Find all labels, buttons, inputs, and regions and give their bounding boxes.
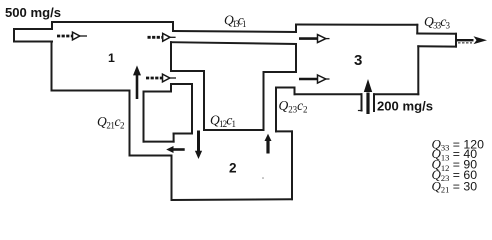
wire inlet pipe top [14, 22, 52, 29]
wire step down to Q13 pipe [172, 22, 174, 31]
speck in box2 [262, 177, 264, 179]
wire box1 top edge [52, 21, 173, 23]
wire box1 left edge [51, 42, 53, 91]
wire Q13 pipe bottom [171, 42, 296, 44]
arrow 200mg/s up into box3 [364, 79, 372, 114]
arrow inflow 500 into box1 [57, 32, 87, 40]
wire box2 top left [174, 133, 192, 135]
wire outlet pipe top [417, 33, 456, 35]
wire Q12 pipe left wall [191, 84, 193, 134]
wire 200mg/s pipe left wall [361, 94, 363, 110]
wire Q13 pipe top [173, 31, 296, 32]
wire outlet pipe bottom [418, 45, 456, 47]
wire box3 left edge [295, 44, 297, 72]
wire box2 left edge [171, 156, 173, 201]
svg-text:1: 1 [108, 51, 115, 65]
wire box1 bottom right [144, 91, 172, 93]
svg-text:200 mg/s: 200 mg/s [377, 98, 433, 113]
arrow Q12 out of box1 [146, 74, 176, 82]
arrow Q33 outflow [456, 36, 487, 44]
wire Q23 pipe outer wall [263, 72, 265, 130]
wire Q21 elbow inner bottom [144, 141, 174, 143]
wire box3 right edge [417, 46, 419, 94]
arrow Q13 out of box1 [148, 33, 176, 41]
wire inlet pipe bottom [14, 41, 52, 43]
wire Q21 elbow outer bottom [130, 155, 172, 157]
wire Q12 channel top [171, 70, 204, 72]
svg-text:Q33c3: Q33c3 [424, 14, 451, 31]
svg-text:3: 3 [354, 52, 362, 69]
wire box3 bottom left [295, 93, 362, 95]
wire box3 bottom right [374, 93, 418, 95]
wire Q23 channel top [264, 71, 297, 73]
svg-text:Q13c1: Q13c1 [224, 12, 247, 29]
wire box3 top step-up [295, 25, 297, 33]
wire box3 bottom step [294, 88, 296, 95]
wire 200mg/s pipe left foot [359, 110, 363, 112]
wire box1 right edge [170, 42, 172, 71]
wire Q23 channel inner top [276, 87, 295, 89]
svg-text:Q12c1: Q12c1 [210, 112, 236, 129]
wire box2 bottom [172, 198, 293, 201]
svg-text:Q23c2: Q23c2 [279, 98, 308, 115]
arrow Q23 into box3 [299, 75, 330, 83]
wire notch bottom between pipes [204, 129, 264, 131]
wire inlet pipe cap [13, 29, 15, 42]
svg-text:500 mg/s: 500 mg/s [5, 5, 61, 20]
arrow Q21 up into box1 [134, 67, 141, 100]
wire box2 right edge [291, 131, 293, 199]
wire Q21 pipe left wall [129, 91, 131, 156]
svg-text:Q21c2: Q21c2 [97, 114, 125, 131]
wire box1 bottom step [170, 84, 172, 92]
svg-text:Q21 = 30: Q21 = 30 [432, 178, 478, 194]
wire box3 step-down to outlet [416, 25, 418, 34]
arrow Q13 into box3 [299, 35, 330, 43]
wire Q21 elbow inner step [173, 134, 175, 142]
arrow Q21 out of box2 (left) [166, 146, 185, 153]
wire Q12 pipe right wall [203, 71, 205, 130]
wire box2 top right [276, 130, 292, 132]
arrow Q23 up out of box2 [265, 134, 272, 154]
wire box1 bottom left [52, 90, 130, 92]
wire Q21 pipe right wall [143, 92, 145, 142]
wire 200mg/s pipe right wall [373, 94, 375, 111]
wire box3 top edge [296, 24, 417, 26]
svg-text:2: 2 [229, 161, 237, 176]
wire outlet pipe cap [455, 34, 457, 47]
arrow Q12 down into box2 [195, 131, 202, 160]
wire Q12 channel inner [171, 83, 192, 85]
wire Q23 pipe inner wall [275, 88, 277, 132]
